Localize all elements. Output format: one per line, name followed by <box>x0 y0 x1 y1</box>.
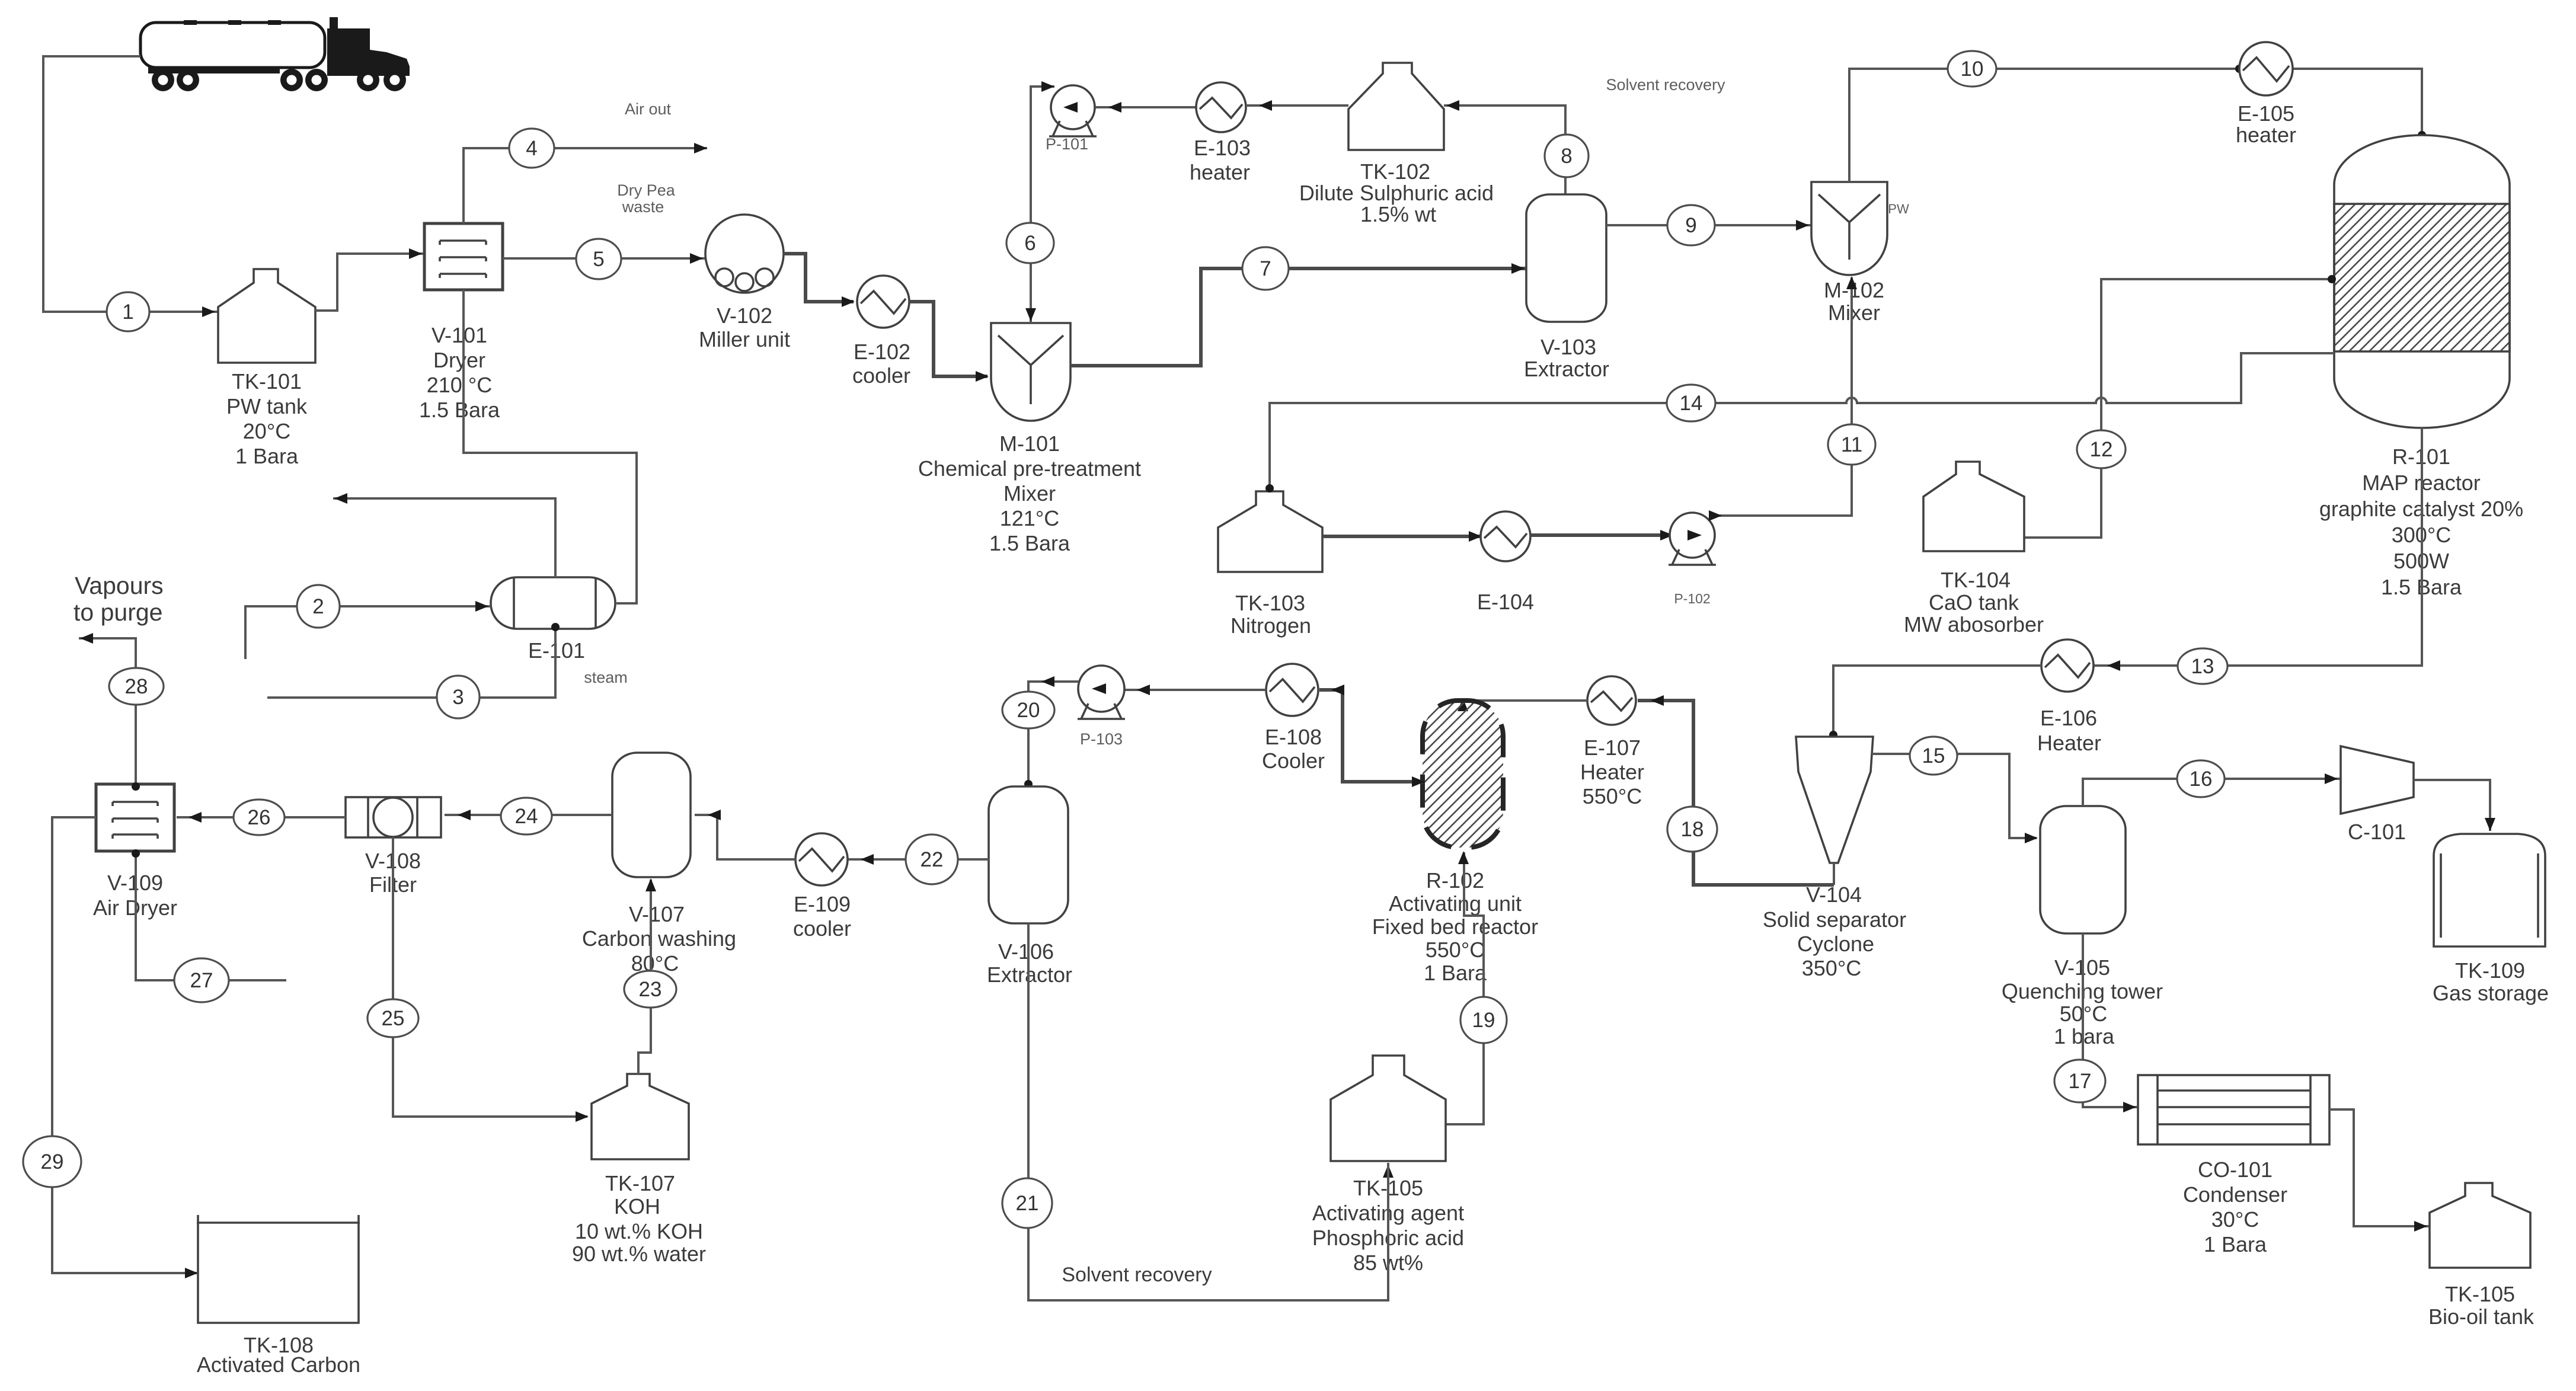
stream circle 23 <box>624 971 676 1008</box>
delivery truck icon <box>140 17 410 91</box>
stream circle 9 <box>1667 205 1715 245</box>
stream circle 18 <box>1667 807 1717 852</box>
filter V-108 <box>346 797 441 897</box>
svg-text:Condenser: Condenser <box>2183 1182 2287 1207</box>
tank TK-107 KOH <box>572 1074 706 1266</box>
wire E-107 to R-102 top <box>1458 698 1587 711</box>
svg-text:Gas storage: Gas storage <box>2433 981 2549 1005</box>
svg-text:2: 2 <box>312 595 324 618</box>
wire P-101 discharge to M-101 via stream 6 <box>1025 81 1054 323</box>
pump P-102 <box>1669 513 1716 606</box>
svg-text:E-109: E-109 <box>794 892 851 916</box>
stream circle 21 <box>1002 1178 1052 1228</box>
wire E-109 to V-107 <box>695 810 795 859</box>
stream circle 25 <box>367 999 418 1037</box>
svg-text:Cyclone: Cyclone <box>1797 932 1874 956</box>
svg-text:E-108: E-108 <box>1265 725 1322 749</box>
svg-text:M-102: M-102 <box>1824 278 1884 302</box>
stream circle 12 <box>2077 430 2126 468</box>
svg-text:V-106: V-106 <box>998 939 1054 964</box>
wire E-108 to P-103 <box>1124 685 1266 695</box>
svg-text:E-103: E-103 <box>1194 136 1251 160</box>
stream circle 13 <box>2178 648 2227 684</box>
wire E-104 to P-102 <box>1530 530 1673 541</box>
wire stream 2 to E-101 <box>245 601 491 659</box>
wire M-102 top to R-101 via stream 10 and E-105 <box>1849 65 2426 182</box>
stream circle 8 <box>1545 135 1589 177</box>
tank TK-109 gas storage <box>2433 834 2549 1005</box>
svg-text:V-107: V-107 <box>629 902 685 926</box>
heat exchanger E-107 heater <box>1580 676 1644 808</box>
wire M-101 to V-103 via stream 7 <box>1070 263 1526 366</box>
svg-text:TK-107: TK-107 <box>605 1171 675 1195</box>
svg-text:Extractor: Extractor <box>1524 357 1609 381</box>
tank TK-105 bio-oil <box>2428 1183 2535 1329</box>
compressor C-101 <box>2341 746 2414 844</box>
wire truck to TK-101 via stream 1 <box>43 56 218 317</box>
svg-text:1 Bara: 1 Bara <box>235 444 299 468</box>
svg-text:1: 1 <box>122 300 133 324</box>
extractor V-103 <box>1524 194 1609 381</box>
wire TK-107 to V-107 via stream 23 <box>638 878 656 1074</box>
svg-text:Mixer: Mixer <box>1003 481 1056 506</box>
svg-text:17: 17 <box>2069 1070 2092 1093</box>
stream circle 24 <box>501 798 552 834</box>
stream circle 15 <box>1910 737 1957 775</box>
svg-text:18: 18 <box>1681 818 1704 841</box>
svg-text:1 bara: 1 bara <box>2054 1024 2115 1048</box>
wire V-103 top to TK-102 via stream 8 <box>1444 100 1565 194</box>
svg-text:P-102: P-102 <box>1674 591 1710 606</box>
stream circle 5 <box>576 239 621 279</box>
svg-text:4: 4 <box>526 137 537 160</box>
wire P-102 to M-102 via stream 11 <box>1709 276 1857 521</box>
cyclone V-104 solid separator <box>1763 737 1906 980</box>
stream circle 20 <box>1002 692 1054 728</box>
heat exchanger E-103 heater <box>1190 82 1251 184</box>
svg-text:Carbon washing: Carbon washing <box>582 926 736 951</box>
svg-text:E-105: E-105 <box>2238 101 2294 126</box>
svg-text:P-101: P-101 <box>1046 135 1088 153</box>
svg-text:10: 10 <box>1961 57 1984 81</box>
wire V-105 to CO-101 via stream 17 <box>2083 933 2138 1112</box>
svg-text:1.5% wt: 1.5% wt <box>1360 202 1436 226</box>
svg-text:Activated Carbon: Activated Carbon <box>197 1352 360 1377</box>
svg-text:Vapours: Vapours <box>75 572 164 599</box>
svg-text:TK-103: TK-103 <box>1235 591 1305 615</box>
svg-text:Cooler: Cooler <box>1262 749 1325 773</box>
svg-text:V-103: V-103 <box>1541 335 1596 359</box>
svg-text:Activating unit: Activating unit <box>1389 891 1522 916</box>
svg-text:V-101: V-101 <box>432 323 487 347</box>
wire V-109 bottom to stream 27 stub <box>132 849 286 980</box>
stream circle 6 <box>1006 223 1054 263</box>
reactor R-102 activating unit <box>1372 701 1538 985</box>
svg-text:20: 20 <box>1017 699 1040 722</box>
svg-text:27: 27 <box>190 969 213 992</box>
svg-text:550°C: 550°C <box>1583 784 1642 808</box>
svg-text:TK-102: TK-102 <box>1360 159 1430 184</box>
svg-text:P-103: P-103 <box>1080 730 1123 748</box>
svg-text:1.5 Bara: 1.5 Bara <box>419 398 500 422</box>
tank TK-108 activated carbon <box>197 1215 360 1377</box>
svg-text:25: 25 <box>382 1007 405 1030</box>
wire V-109 to TK-108 via stream 29 <box>52 817 198 1278</box>
wire V-102 to E-102 cooler <box>784 254 855 307</box>
pump P-103 <box>1078 666 1125 748</box>
heat exchanger E-105 heater <box>2236 42 2296 147</box>
svg-text:210 °C: 210 °C <box>427 373 492 397</box>
wire V-108 to V-109 via stream 26 <box>177 812 346 823</box>
heat exchanger E-108 cooler <box>1262 664 1325 773</box>
stream circle 14 <box>1667 385 1715 421</box>
svg-text:13: 13 <box>2191 655 2214 678</box>
wire R-102 to E-108 cooler <box>1319 685 1425 787</box>
svg-text:MW abosorber: MW abosorber <box>1904 612 2044 637</box>
wire V-101 top to Air out via stream 4 <box>464 100 707 223</box>
stream circle 3 <box>437 676 480 718</box>
svg-text:1.5 Bara: 1.5 Bara <box>989 531 1070 555</box>
svg-text:9: 9 <box>1685 214 1696 237</box>
svg-text:E-106: E-106 <box>2040 706 2097 730</box>
svg-text:Mixer: Mixer <box>1828 300 1880 325</box>
svg-text:Heater: Heater <box>2037 731 2101 755</box>
stream circle 26 <box>234 800 285 835</box>
stream circle 22 <box>906 834 958 884</box>
wire E-102 to M-101 mixer <box>909 302 989 382</box>
svg-text:Air out: Air out <box>625 100 672 118</box>
svg-text:V-102: V-102 <box>717 303 772 328</box>
svg-text:24: 24 <box>515 805 538 828</box>
svg-text:Chemical pre-treatment: Chemical pre-treatment <box>918 456 1141 481</box>
tank TK-102 dilute sulphuric acid <box>1299 63 1494 226</box>
svg-text:TK-109: TK-109 <box>2455 958 2525 983</box>
wire V-101 to V-102 via stream 5 <box>503 181 705 264</box>
svg-text:20°C: 20°C <box>243 419 290 443</box>
extractor V-106 <box>987 786 1072 987</box>
svg-text:90 wt.% water: 90 wt.% water <box>572 1242 706 1266</box>
carbon washing column V-107 <box>582 753 736 976</box>
stream circle 16 <box>2177 760 2225 797</box>
stream circle 19 <box>1460 997 1507 1043</box>
stream circle 29 <box>23 1136 81 1187</box>
svg-text:M-101: M-101 <box>999 431 1060 456</box>
svg-text:E-104: E-104 <box>1477 590 1534 614</box>
air dryer V-109 <box>93 784 177 920</box>
svg-text:cooler: cooler <box>793 916 851 941</box>
stream circle 7 <box>1242 247 1289 290</box>
miller unit V-102 <box>699 215 790 351</box>
wire P-103 to V-106 via stream 20 <box>1024 676 1079 788</box>
wire V-108 to TK-107 via stream 25 <box>393 837 589 1122</box>
svg-text:28: 28 <box>125 675 148 698</box>
svg-text:Nitrogen: Nitrogen <box>1231 613 1311 638</box>
tank TK-103 nitrogen <box>1218 484 1322 638</box>
svg-text:waste: waste <box>622 198 664 216</box>
wire E-106 to V-104 cyclone <box>1829 666 2041 739</box>
wire R-101 bottom to E-106 via stream 13 <box>2094 428 2422 671</box>
svg-text:Solid separator: Solid separator <box>1763 907 1906 932</box>
svg-text:E-107: E-107 <box>1584 736 1641 760</box>
reactor R-101 MAP reactor <box>2319 135 2523 599</box>
wire stream 12 TK-104 to R-101 <box>2024 275 2336 538</box>
svg-text:Dryer: Dryer <box>433 348 485 372</box>
quenching tower V-105 <box>2002 806 2163 1048</box>
svg-text:22: 22 <box>921 848 944 871</box>
wire TK-101 to V-101 dryer <box>315 248 424 311</box>
svg-text:23: 23 <box>639 978 662 1001</box>
stream circle 17 <box>2054 1060 2105 1102</box>
dryer V-101 <box>419 223 503 422</box>
svg-text:steam: steam <box>584 669 628 686</box>
svg-text:PW tank: PW tank <box>226 394 308 418</box>
svg-text:1 Bara: 1 Bara <box>2204 1232 2267 1256</box>
pump P-101 <box>1046 85 1097 153</box>
wire V-106 to E-109 via stream 22 <box>848 854 989 865</box>
svg-text:6: 6 <box>1024 232 1035 255</box>
svg-text:30°C: 30°C <box>2211 1207 2259 1232</box>
svg-text:19: 19 <box>1472 1009 1495 1032</box>
svg-text:5: 5 <box>593 248 604 271</box>
stream circle 27 <box>174 958 229 1002</box>
svg-text:to purge: to purge <box>73 599 162 626</box>
tank TK-101 PW tank <box>218 269 315 468</box>
svg-text:R-102: R-102 <box>1426 868 1484 893</box>
svg-text:550°C: 550°C <box>1426 938 1485 962</box>
stream circle 11 <box>1828 424 1875 465</box>
svg-text:cooler: cooler <box>852 363 910 388</box>
heat exchanger E-109 cooler <box>793 833 851 941</box>
svg-text:TK-104: TK-104 <box>1941 568 2011 592</box>
svg-text:350°C: 350°C <box>1802 956 1861 980</box>
wire V-104 bottom to E-107 via stream 18 <box>1638 695 1834 885</box>
svg-text:3: 3 <box>452 686 464 709</box>
wire E-103 to P-101 <box>1095 102 1196 113</box>
svg-text:21: 21 <box>1016 1192 1039 1215</box>
wire V-105 to C-101 via stream 16 <box>2083 773 2341 806</box>
svg-text:Fixed bed reactor: Fixed bed reactor <box>1372 914 1538 939</box>
condenser CO-101 <box>2138 1075 2329 1256</box>
stream circle 1 <box>107 292 149 331</box>
wire CO-101 to TK-105 bio-oil tank <box>2329 1109 2430 1232</box>
svg-text:8: 8 <box>1561 145 1572 168</box>
svg-text:E-102: E-102 <box>854 340 910 364</box>
svg-text:heater: heater <box>1190 160 1250 184</box>
wire TK-105 to R-102 via stream 19 <box>1446 851 1484 1124</box>
svg-text:10 wt.% KOH: 10 wt.% KOH <box>575 1219 703 1243</box>
wire V-109 to vapours purge via stream 28 <box>73 572 164 791</box>
wire stream 14 TK-103 to R-101 <box>1270 353 2334 491</box>
svg-text:TK-105: TK-105 <box>2445 1282 2515 1306</box>
wire V-103 to M-102 via stream 9 <box>1606 220 1811 231</box>
svg-text:Solvent recovery: Solvent recovery <box>1062 1264 1212 1286</box>
svg-text:7: 7 <box>1260 257 1271 280</box>
heat exchanger E-104 <box>1477 511 1534 614</box>
wire steam stream 3 to E-101 bottom <box>267 623 628 698</box>
svg-text:Miller unit: Miller unit <box>699 327 790 351</box>
wire V-107 to V-108 via stream 24 <box>445 810 612 820</box>
mixer M-101 chemical pre-treatment <box>918 323 1141 555</box>
mixer M-102 <box>1811 182 1909 325</box>
svg-text:26: 26 <box>248 806 271 829</box>
svg-text:Solvent recovery: Solvent recovery <box>1606 76 1725 94</box>
svg-text:15: 15 <box>1922 744 1945 768</box>
tank TK-105 activating agent <box>1312 1056 1464 1275</box>
wire V-101 bottom loop to E-101 <box>464 290 637 603</box>
stream circle 10 <box>1948 51 1996 87</box>
svg-text:heater: heater <box>2236 123 2296 147</box>
svg-text:14: 14 <box>1680 392 1703 415</box>
wire TK-102 to E-103 <box>1246 100 1348 111</box>
svg-text:Dilute Sulphuric acid: Dilute Sulphuric acid <box>1299 181 1494 205</box>
wire V-104 to V-105 via stream 15 <box>1872 754 2038 843</box>
tank TK-104 CaO <box>1904 462 2044 637</box>
stream circle 4 <box>509 129 554 168</box>
svg-text:121°C: 121°C <box>1000 506 1059 530</box>
svg-text:29: 29 <box>41 1150 64 1173</box>
svg-text:Heater: Heater <box>1580 760 1644 784</box>
heat exchanger E-101 <box>491 577 615 663</box>
svg-text:Bio-oil tank: Bio-oil tank <box>2428 1304 2535 1329</box>
wire TK-103 to E-104 <box>1322 531 1482 542</box>
svg-text:PW: PW <box>1888 202 1909 216</box>
heat exchanger E-106 heater <box>2037 639 2101 755</box>
svg-text:CaO tank: CaO tank <box>1929 590 2019 615</box>
wire V-106 bottom to TK-105 via stream 21 solvent recovery <box>1028 923 1388 1300</box>
svg-text:12: 12 <box>2090 438 2113 461</box>
wire C-101 to TK-109 <box>2414 780 2495 831</box>
svg-text:C-101: C-101 <box>2348 820 2406 844</box>
stream circle 2 <box>297 585 340 628</box>
svg-text:CO-101: CO-101 <box>2198 1157 2273 1182</box>
svg-text:16: 16 <box>2190 768 2213 791</box>
svg-text:11: 11 <box>1841 433 1862 456</box>
svg-text:1 Bara: 1 Bara <box>1424 961 1487 985</box>
heat exchanger E-102 cooler <box>852 276 910 388</box>
stream circle 28 <box>109 668 164 705</box>
svg-text:KOH: KOH <box>614 1194 660 1219</box>
svg-text:Dry Pea: Dry Pea <box>617 181 676 199</box>
svg-text:TK-101: TK-101 <box>232 369 302 394</box>
wire E-101 top return arrow <box>333 493 555 577</box>
